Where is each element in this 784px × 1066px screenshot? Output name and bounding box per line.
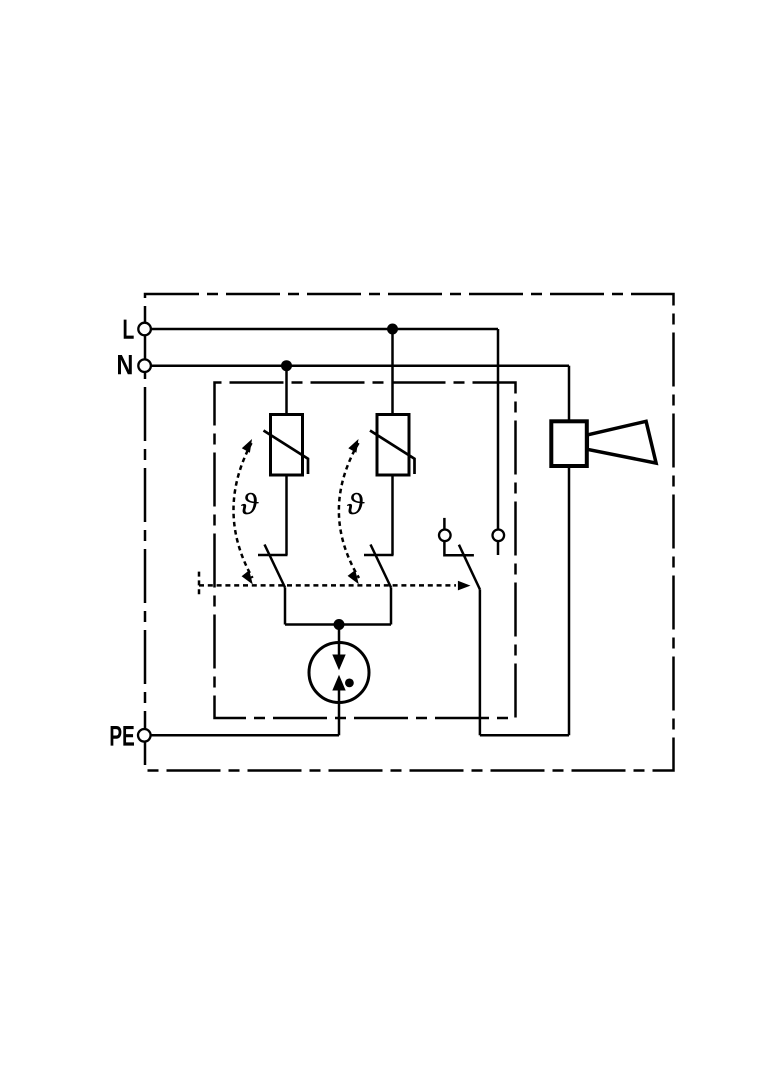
thermal arc theta2	[339, 443, 359, 578]
varistor MOV1 body	[271, 415, 303, 476]
disconnector F2 fixed contact bar	[364, 554, 394, 557]
inner dash-dot module border	[215, 383, 516, 719]
signalling contact NO stub	[497, 541, 500, 556]
terminal PE circle	[138, 729, 151, 742]
outer dash-dot enclosure border	[145, 294, 674, 771]
wire MOV2 to disconnector F2	[391, 475, 394, 555]
varistor MOV2 body	[377, 415, 409, 476]
wire pivot to horn	[480, 734, 569, 737]
actuator linkage left tick	[198, 572, 201, 598]
terminal N circle	[138, 359, 151, 372]
wire collector node	[285, 623, 391, 626]
GDT gas dot	[345, 679, 354, 688]
thermal arc theta1	[233, 443, 252, 578]
junction dot collector	[334, 619, 345, 630]
GDT top arrow head	[332, 655, 345, 671]
terminal L circle	[138, 323, 151, 336]
signalling contact NC stub above	[443, 518, 446, 531]
signalling NC terminal circle	[439, 530, 451, 542]
GDT bottom arrow head	[332, 675, 345, 691]
disconnector F1 blade	[265, 545, 286, 588]
wire blade pivot down	[479, 589, 482, 735]
varistor MOV1 strike	[264, 431, 309, 475]
label N	[118, 355, 132, 374]
GDT top electrode	[338, 643, 341, 656]
wire L junction to varistor MOV2	[391, 329, 394, 415]
actuator dashed linkage line	[199, 584, 456, 587]
wire F2 to collector	[390, 588, 393, 625]
wire horn bottom	[568, 466, 571, 735]
disconnector F2 blade	[371, 545, 392, 588]
horn driver body	[551, 421, 587, 466]
thermal arc theta1 bottom arrow head	[242, 570, 253, 584]
wire N bus	[152, 364, 570, 367]
wire L bus down to signalling contact	[497, 329, 500, 530]
junction dot L/MOV2	[387, 324, 398, 335]
wire F1 to collector	[284, 588, 287, 625]
label theta1	[241, 493, 259, 515]
wire L bus	[152, 328, 499, 331]
wire PE bus	[152, 734, 340, 737]
signalling contact NC bar	[444, 541, 474, 556]
wire collector to gas discharge tube	[338, 625, 341, 644]
thermal arc theta2 bottom arrow head	[348, 570, 359, 584]
signalling contact blade	[459, 545, 480, 590]
GDT bottom electrode wire to PE	[338, 689, 341, 735]
signalling NO terminal circle	[493, 530, 505, 542]
label L	[124, 320, 134, 339]
wire MOV1 to disconnector F1	[285, 475, 288, 555]
thermal arc theta1 top arrow head	[242, 439, 252, 453]
label theta2	[347, 493, 365, 515]
varistor MOV2 strike	[370, 431, 415, 475]
thermal arc theta2 top arrow head	[348, 439, 358, 453]
label PE	[111, 726, 122, 746]
disconnector F1 fixed contact bar	[258, 554, 288, 557]
wire horn top to N bus	[568, 366, 571, 422]
horn bell	[587, 421, 656, 463]
actuator arrow head	[458, 581, 471, 591]
wire N junction to varistor MOV1	[285, 366, 288, 415]
junction dot N/MOV1	[281, 360, 292, 371]
gas discharge tube GDT body	[309, 643, 369, 703]
